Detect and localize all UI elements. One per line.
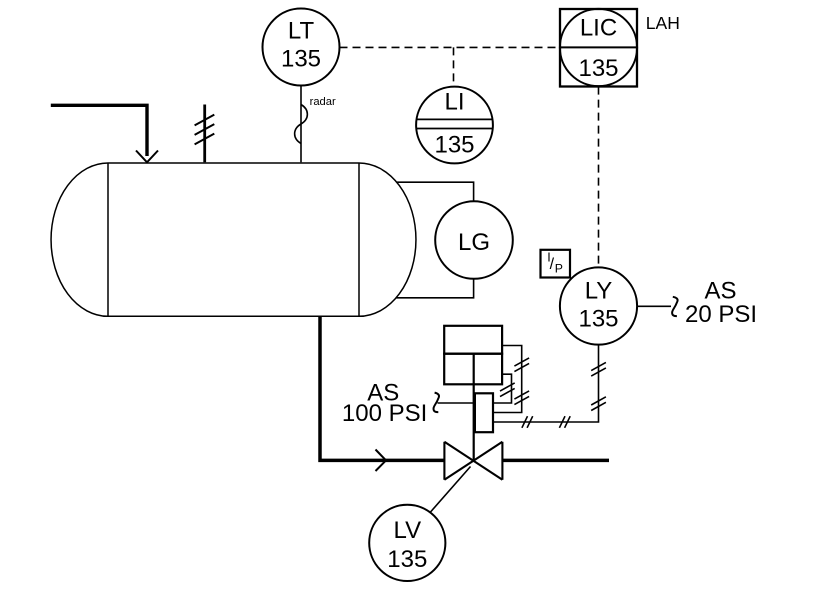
svg-text:radar: radar	[310, 96, 336, 108]
svg-text:LI: LI	[444, 89, 464, 116]
svg-text:LT: LT	[288, 18, 315, 45]
svg-text:LY: LY	[585, 277, 613, 304]
svg-text:LV: LV	[394, 517, 422, 544]
svg-text:LAH: LAH	[646, 13, 680, 33]
svg-text:135: 135	[434, 132, 474, 159]
svg-text:135: 135	[281, 46, 321, 73]
svg-text:135: 135	[578, 306, 618, 333]
svg-text:P: P	[555, 262, 563, 276]
svg-text:100 PSI: 100 PSI	[342, 400, 427, 427]
svg-text:LG: LG	[458, 229, 490, 256]
svg-text:135: 135	[387, 546, 427, 573]
svg-text:135: 135	[578, 55, 618, 82]
svg-text:LIC: LIC	[580, 14, 617, 41]
svg-text:20 PSI: 20 PSI	[685, 301, 757, 328]
